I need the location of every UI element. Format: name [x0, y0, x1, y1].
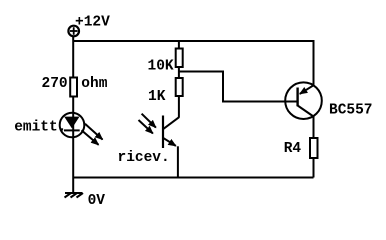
svg-text:1K: 1K — [148, 89, 166, 105]
svg-text:ricev.: ricev. — [118, 150, 170, 166]
svg-text:BC557: BC557 — [329, 103, 373, 119]
svg-text:+12V: +12V — [75, 15, 110, 31]
svg-text:ohm: ohm — [81, 76, 107, 92]
svg-text:0V: 0V — [88, 193, 106, 209]
svg-text:R4: R4 — [284, 141, 302, 157]
svg-text:emitt.: emitt. — [14, 120, 66, 136]
svg-text:10K: 10K — [148, 59, 174, 75]
svg-text:270: 270 — [42, 76, 68, 92]
